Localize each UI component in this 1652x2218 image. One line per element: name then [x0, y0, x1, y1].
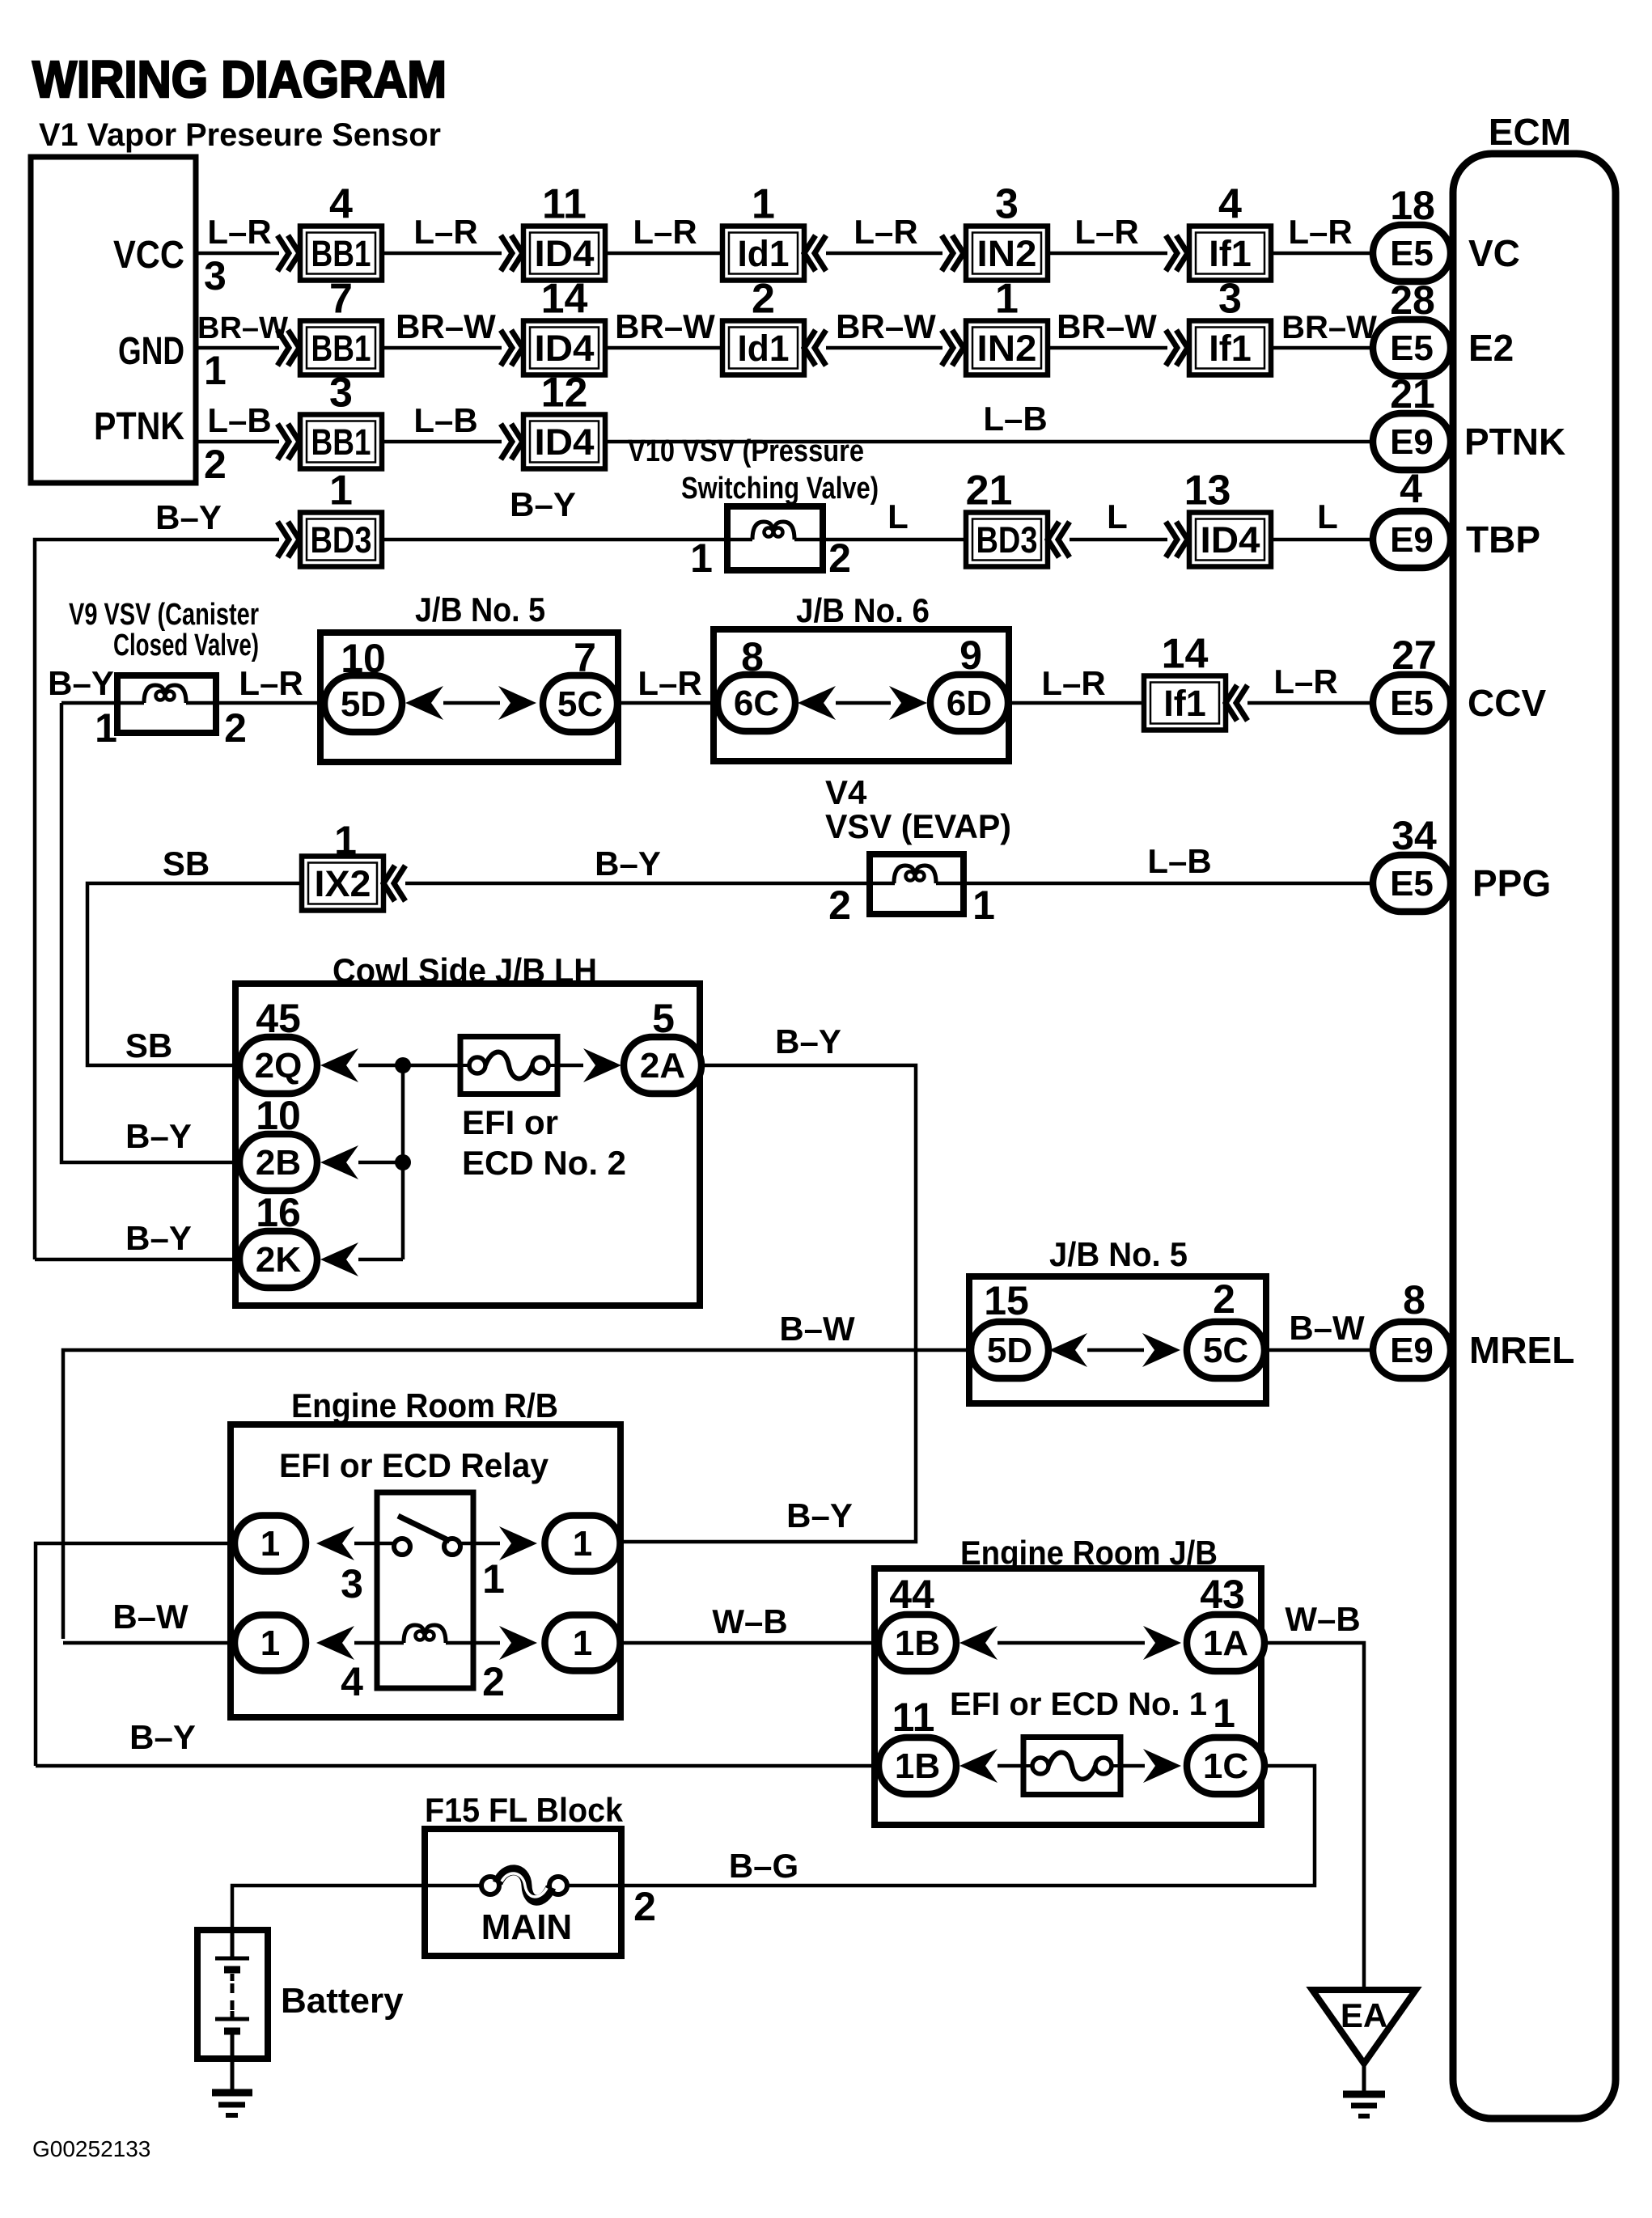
wire IX2 to VSV EVAP (B-Y)	[405, 882, 870, 886]
svg-text:L: L	[887, 497, 909, 535]
svg-text:W–B: W–B	[712, 1602, 787, 1640]
svg-text:1: 1	[329, 468, 353, 514]
svg-text:1A: 1A	[1203, 1623, 1248, 1663]
connector If1 pin 3	[1189, 276, 1271, 375]
wire 5D to 5C	[443, 701, 500, 705]
svg-text:5C: 5C	[1203, 1331, 1248, 1370]
svg-text:V9 VSV (Canister: V9 VSV (Canister	[69, 598, 259, 632]
svg-text:ID4: ID4	[535, 421, 595, 463]
svg-text:3: 3	[1218, 276, 1242, 323]
svg-text:1: 1	[95, 705, 117, 751]
component Cowl Side J/B LH box	[235, 984, 700, 1306]
wire 6C to 6D	[836, 701, 891, 705]
arrow right	[1142, 1333, 1180, 1367]
connector IN2 pin 1	[966, 276, 1048, 375]
svg-text:If1: If1	[1163, 683, 1206, 724]
svg-text:ID4: ID4	[535, 328, 595, 369]
connector E5 pin 34	[1373, 855, 1451, 912]
connector 2A pin 5	[624, 1037, 701, 1094]
svg-text:14: 14	[541, 276, 588, 323]
svg-text:11: 11	[542, 181, 587, 228]
connector 2Q pin 45	[239, 1037, 317, 1094]
svg-text:28: 28	[1390, 277, 1435, 323]
wire 1C to B-G corner	[621, 1766, 1315, 1886]
wire ID4 to Id1 (L-R)	[605, 252, 722, 256]
battery ground symbol	[231, 2059, 235, 2091]
component J/B No.5 second box	[969, 1276, 1266, 1403]
connector Id1 pin 1	[722, 181, 804, 281]
wire If1 to ECM E5 (L-R)	[1271, 252, 1412, 256]
svg-text:B–Y: B–Y	[155, 498, 222, 536]
arrow right	[498, 686, 536, 720]
svg-text:2A: 2A	[640, 1046, 685, 1086]
svg-text:2: 2	[828, 883, 851, 928]
svg-text:1: 1	[261, 1524, 280, 1564]
wire corner left B-Y	[35, 540, 279, 1259]
wire 2A B-Y to vertical	[621, 1065, 916, 1542]
chevron out of Id1	[804, 235, 826, 271]
connector ID4 pin 11	[523, 181, 605, 281]
svg-text:1C: 1C	[1203, 1746, 1248, 1786]
svg-text:Battery: Battery	[281, 1981, 404, 2021]
arrow left after 2K	[320, 1242, 358, 1276]
connector E5 pin 27	[1373, 675, 1451, 731]
svg-text:43: 43	[1200, 1572, 1245, 1617]
wire 2Q to fuse	[358, 1064, 460, 1068]
svg-text:4: 4	[329, 181, 353, 228]
svg-text:2: 2	[633, 1884, 656, 1929]
relay inner box	[377, 1492, 473, 1688]
wire Id1 to IN2 (L-R)	[826, 252, 942, 256]
wire 1B to fuse	[998, 1764, 1023, 1768]
svg-text:L–B: L–B	[1147, 842, 1211, 880]
svg-text:9: 9	[959, 633, 982, 678]
connector 1B pin 44	[879, 1615, 956, 1671]
wire BB1 to ID4 (L-R)	[382, 252, 502, 256]
svg-text:18: 18	[1390, 183, 1435, 228]
svg-text:E5: E5	[1390, 864, 1434, 904]
svg-text:B–Y: B–Y	[129, 1718, 196, 1756]
connector E9 pin 4	[1373, 511, 1451, 568]
svg-text:VSV (EVAP): VSV (EVAP)	[825, 807, 1011, 845]
svg-text:PTNK: PTNK	[94, 405, 184, 448]
svg-text:4: 4	[341, 1659, 363, 1704]
connector E5 pin 28	[1373, 320, 1451, 376]
arrow right	[499, 1526, 537, 1560]
svg-text:12: 12	[541, 370, 588, 417]
component V1 Vapor Pressure Sensor box	[31, 157, 196, 483]
connector 2K pin 16	[239, 1231, 317, 1288]
wire BD3 to ID4 (L)	[1070, 538, 1167, 542]
svg-text:8: 8	[1403, 1277, 1425, 1323]
svg-text:IN2: IN2	[977, 233, 1037, 274]
svg-text:L–R: L–R	[1273, 662, 1337, 701]
arrow left	[959, 1626, 998, 1660]
wire VCC to BB1 (L-R)	[196, 252, 279, 256]
svg-text:ID4: ID4	[535, 233, 595, 274]
svg-text:27: 27	[1391, 633, 1437, 678]
chevron into BB1	[277, 424, 299, 459]
svg-text:W–B: W–B	[1285, 1600, 1360, 1638]
svg-text:L: L	[1317, 497, 1338, 535]
relay contact oval 1 (pin1)	[545, 1516, 621, 1572]
svg-text:MAIN: MAIN	[481, 1907, 572, 1947]
svg-text:MREL: MREL	[1469, 1329, 1574, 1371]
svg-text:B–W: B–W	[1289, 1309, 1365, 1347]
chevron into If1	[1166, 330, 1188, 366]
svg-text:L–R: L–R	[638, 664, 701, 702]
connector E9 pin 21	[1373, 413, 1451, 470]
svg-text:E9: E9	[1390, 1331, 1434, 1370]
arrow right	[499, 1626, 537, 1660]
svg-text:BB1: BB1	[311, 421, 371, 463]
arrow right	[1143, 1626, 1181, 1660]
connector ID4 pin 13	[1184, 468, 1271, 567]
svg-text:1: 1	[752, 181, 775, 228]
wire 5C to 6C (L-R)	[618, 701, 717, 705]
relay coil oval 1 (pin2)	[545, 1615, 621, 1671]
component V10 VSV coil box	[727, 506, 823, 570]
svg-text:PPG: PPG	[1472, 862, 1551, 904]
connector Id1 pin 2	[722, 276, 804, 375]
wire relay pin2 to 1B (W-B)	[621, 1641, 879, 1645]
svg-text:1: 1	[482, 1556, 505, 1602]
connector BB1 pin 7	[300, 276, 382, 375]
svg-text:GND: GND	[118, 330, 184, 373]
connector 5D pin 10	[324, 675, 402, 732]
chevron into ID4	[501, 235, 523, 271]
svg-text:L–R: L–R	[633, 213, 697, 251]
svg-text:PTNK: PTNK	[1464, 421, 1565, 463]
svg-text:B–W: B–W	[779, 1310, 855, 1348]
svg-text:3: 3	[204, 253, 227, 298]
wire 1A to EA ground (W-B)	[1264, 1643, 1364, 1990]
svg-text:If1: If1	[1209, 233, 1252, 274]
ground EA triangle	[1312, 1990, 1416, 2064]
svg-text:L–R: L–R	[1041, 664, 1105, 702]
svg-text:2: 2	[828, 535, 851, 581]
chevron into ID4	[1166, 522, 1188, 557]
chevron into ID4	[501, 424, 523, 459]
svg-text:WIRING DIAGRAM: WIRING DIAGRAM	[32, 50, 447, 108]
connector BD3 pin 21	[966, 468, 1048, 567]
svg-text:Closed Valve): Closed Valve)	[113, 629, 259, 662]
relay coil oval 1 (pin4)	[235, 1615, 306, 1671]
svg-text:VC: VC	[1468, 232, 1520, 274]
svg-text:CCV: CCV	[1468, 682, 1546, 724]
svg-text:J/B No. 5: J/B No. 5	[1049, 1235, 1188, 1273]
connector BD3 pin 1	[300, 468, 382, 567]
arrow left	[959, 1749, 998, 1783]
svg-text:L–R: L–R	[207, 213, 271, 251]
svg-text:J/B No. 6: J/B No. 6	[796, 591, 930, 629]
arrow right	[889, 686, 927, 720]
svg-text:ECM: ECM	[1489, 111, 1571, 153]
connector 6D pin 9	[930, 675, 1008, 731]
component Engine Room R/B box	[231, 1424, 621, 1717]
wire IN2 to If1 (BR-W)	[1048, 346, 1167, 350]
svg-text:B–Y: B–Y	[775, 1022, 841, 1060]
relay contact oval 1 (pin3)	[235, 1516, 306, 1572]
svg-text:E5: E5	[1390, 234, 1434, 273]
svg-text:Id1: Id1	[738, 328, 790, 369]
wire ID4 to ECM E9 (L-B)	[605, 440, 1412, 444]
svg-text:B–Y: B–Y	[786, 1496, 853, 1534]
wire 2K to junction vertical	[358, 1258, 403, 1262]
component J/B No.5 box	[320, 633, 618, 762]
svg-text:BR–W: BR–W	[1057, 307, 1157, 345]
component battery	[197, 1930, 268, 2059]
svg-text:V1 Vapor Preseure Sensor: V1 Vapor Preseure Sensor	[39, 117, 441, 153]
wire 5C to ECM E9 (B-W)	[1264, 1348, 1412, 1352]
wire Id1 to IN2 (BR-W)	[826, 346, 942, 350]
wire V9 to J/B5 5D (L-R)	[216, 701, 324, 705]
arrow left	[316, 1626, 354, 1660]
svg-text:B–Y: B–Y	[125, 1117, 192, 1155]
svg-text:BR–W: BR–W	[396, 307, 496, 345]
svg-text:ECD No. 2: ECD No. 2	[462, 1144, 626, 1182]
wire BB1 to ID4 (BR-W)	[382, 346, 502, 350]
switch contact circles and blade	[377, 1542, 394, 1546]
svg-text:2: 2	[204, 442, 227, 487]
arrow left after 2Q	[320, 1048, 358, 1082]
svg-text:2: 2	[482, 1659, 505, 1704]
svg-text:15: 15	[984, 1278, 1029, 1323]
wire fuse to 1C	[1120, 1764, 1145, 1768]
wire ID4 to Id1 (BR-W)	[605, 346, 722, 350]
svg-text:E5: E5	[1390, 684, 1434, 723]
svg-text:B–Y: B–Y	[48, 664, 114, 702]
svg-text:E9: E9	[1390, 422, 1434, 462]
connector 5C pin 2	[1187, 1322, 1264, 1378]
svg-text:L–B: L–B	[983, 400, 1047, 438]
connector 2B pin 10	[239, 1134, 317, 1191]
svg-text:6D: 6D	[947, 684, 992, 723]
svg-text:BB1: BB1	[311, 233, 371, 274]
svg-text:B–Y: B–Y	[125, 1219, 192, 1257]
wire into relay pin3 from left vertical	[36, 1543, 235, 1766]
svg-text:14: 14	[1162, 631, 1209, 678]
wire BD3 to V10 VSV (B-Y)	[382, 538, 727, 542]
chevron into IN2	[942, 235, 964, 271]
svg-text:L–R: L–R	[413, 213, 477, 251]
chevron into BD3	[277, 522, 299, 557]
svg-text:4: 4	[1400, 466, 1422, 511]
connector BB1 pin 4	[300, 181, 382, 281]
svg-text:BD3: BD3	[311, 519, 372, 561]
wire B-Y bottom to 1B pin11	[36, 1764, 879, 1768]
svg-text:4: 4	[1218, 181, 1242, 228]
svg-text:2: 2	[752, 276, 775, 323]
svg-text:21: 21	[966, 468, 1013, 514]
svg-text:BR–W: BR–W	[197, 311, 288, 345]
svg-text:5D: 5D	[341, 684, 386, 724]
arrow right into 2A	[583, 1048, 621, 1082]
connector ID4 pin 12	[523, 370, 605, 469]
svg-text:BR–W: BR–W	[1281, 310, 1377, 345]
svg-text:IN2: IN2	[977, 328, 1037, 369]
svg-text:21: 21	[1390, 371, 1435, 417]
arrow left after 2B	[320, 1145, 358, 1179]
wire 6D to If1 (L-R)	[1009, 701, 1144, 705]
svg-text:EFI or: EFI or	[462, 1103, 558, 1141]
svg-text:EFI or ECD Relay: EFI or ECD Relay	[279, 1446, 549, 1484]
wire 2B to junction	[358, 1161, 403, 1165]
svg-text:BR–W: BR–W	[615, 307, 715, 345]
svg-text:2: 2	[224, 705, 247, 751]
chevron into IN2	[942, 330, 964, 366]
chevron into BB1	[277, 330, 299, 366]
connector IX2 pin 1	[302, 857, 383, 911]
svg-text:L–B: L–B	[413, 401, 477, 439]
svg-text:SB: SB	[125, 1026, 172, 1065]
svg-text:B–W: B–W	[112, 1598, 188, 1636]
wire If1 to ECM E5 (BR-W)	[1271, 346, 1412, 350]
component Engine Room J/B box	[875, 1568, 1261, 1825]
connector E9 pin 8	[1373, 1322, 1451, 1378]
connector IN2 pin 3	[966, 181, 1048, 281]
wire 1B to 1A	[998, 1641, 1145, 1645]
chevron out of Id1	[804, 330, 826, 366]
fuse EFI or ECD No.1	[1023, 1738, 1120, 1795]
svg-text:L–R: L–R	[1074, 213, 1138, 251]
svg-text:44: 44	[889, 1572, 934, 1617]
svg-text:5C: 5C	[557, 684, 603, 724]
svg-text:EFI or ECD No. 1: EFI or ECD No. 1	[950, 1687, 1207, 1722]
svg-text:IX2: IX2	[315, 863, 371, 904]
svg-text:B–Y: B–Y	[510, 485, 576, 523]
svg-text:1: 1	[1213, 1691, 1235, 1736]
component ECM box	[1453, 154, 1616, 2119]
wire switch to right oval	[473, 1542, 500, 1546]
svg-text:1: 1	[261, 1623, 280, 1663]
connector 1C pin 1	[1187, 1738, 1264, 1794]
connector BB1 pin 3	[300, 370, 382, 469]
svg-text:1: 1	[573, 1623, 592, 1663]
wire ID4 to ECM E9 (L)	[1271, 538, 1412, 542]
svg-text:L–B: L–B	[207, 401, 271, 439]
chevron out of IX2	[383, 866, 405, 901]
relay coil symbol	[404, 1625, 446, 1643]
svg-text:1: 1	[995, 276, 1019, 323]
svg-text:1: 1	[573, 1524, 592, 1564]
svg-text:B–G: B–G	[729, 1847, 798, 1885]
svg-text:2: 2	[1213, 1276, 1235, 1322]
svg-text:13: 13	[1184, 468, 1231, 514]
chevron into If1	[1166, 235, 1188, 271]
component V4 VSV EVAP coil box	[870, 854, 964, 914]
svg-text:L: L	[1107, 497, 1128, 535]
svg-text:J/B No. 5: J/B No. 5	[415, 590, 545, 629]
arrow left	[798, 686, 836, 720]
chevron into BB1	[277, 235, 299, 271]
wire If1 to ECM E5 (L-R)	[1247, 701, 1412, 705]
connector E5 pin 18	[1373, 225, 1451, 281]
svg-text:ID4: ID4	[1201, 519, 1260, 561]
chevron out of If1	[1226, 685, 1247, 721]
svg-text:2B: 2B	[256, 1143, 301, 1183]
connector 1B pin 11	[879, 1738, 956, 1794]
arrow left	[316, 1526, 354, 1560]
wire V9 pin1 to vertical	[61, 701, 117, 705]
fusible link MAIN	[425, 1884, 481, 1888]
wire into relay coil pin4	[63, 1641, 235, 1645]
junction dot	[395, 1154, 411, 1170]
svg-text:L–R: L–R	[854, 213, 917, 251]
chevron out of BD3	[1048, 522, 1070, 557]
svg-text:6C: 6C	[734, 684, 779, 723]
wire fuse to 2A	[557, 1064, 583, 1068]
junction dot	[395, 1057, 411, 1073]
svg-text:2K: 2K	[256, 1240, 301, 1280]
svg-text:VCC: VCC	[113, 234, 184, 277]
connector 1A pin 43	[1187, 1615, 1264, 1671]
svg-text:E9: E9	[1390, 520, 1434, 560]
svg-text:TBP: TBP	[1466, 519, 1540, 561]
svg-text:If1: If1	[1209, 328, 1252, 369]
svg-text:BB1: BB1	[311, 328, 371, 369]
svg-text:Switching Valve): Switching Valve)	[681, 472, 879, 506]
svg-text:3: 3	[995, 181, 1019, 228]
wire V10 to BD3 (L)	[823, 538, 966, 542]
svg-text:Id1: Id1	[738, 233, 790, 274]
svg-text:SB: SB	[163, 844, 210, 883]
svg-text:2Q: 2Q	[255, 1046, 303, 1086]
svg-text:E2: E2	[1468, 327, 1514, 369]
svg-text:1: 1	[204, 348, 227, 393]
connector If1 pin 14	[1144, 631, 1226, 730]
svg-text:1: 1	[690, 535, 713, 581]
svg-text:BR–W: BR–W	[836, 307, 936, 345]
svg-text:B–Y: B–Y	[595, 844, 661, 883]
fuse EFI or ECD No.2	[460, 1037, 557, 1094]
wire VSV EVAP to ECM E5 (L-B)	[964, 882, 1412, 886]
connector 5D pin 15	[971, 1322, 1048, 1378]
wire PTNK to BB1 (L-B)	[196, 440, 279, 444]
wire to switch	[354, 1542, 396, 1546]
svg-text:3: 3	[329, 370, 353, 417]
svg-text:1: 1	[972, 883, 995, 928]
wire junction vertical	[401, 1065, 405, 1259]
svg-text:3: 3	[341, 1561, 363, 1606]
svg-text:1B: 1B	[895, 1623, 940, 1663]
connector 5C pin 7	[543, 675, 617, 732]
svg-text:V4: V4	[825, 773, 867, 811]
component J/B No.6 box	[714, 629, 1009, 761]
component F15 FL Block box	[425, 1829, 621, 1956]
wire 5D to 5C	[1087, 1348, 1144, 1352]
connector ID4 pin 14	[523, 276, 605, 375]
arrow left	[405, 686, 443, 720]
svg-text:F15 FL Block: F15 FL Block	[425, 1791, 624, 1829]
wire IN2 to If1 (L-R)	[1048, 252, 1167, 256]
svg-text:BD3: BD3	[976, 519, 1038, 561]
wire 2K from left vertical	[35, 1258, 239, 1262]
wire BB1 to ID4 (L-B)	[382, 440, 502, 444]
connector 6C pin 8	[718, 675, 795, 731]
wire GND to BB1 (BR-W)	[196, 346, 279, 350]
svg-text:V10 VSV (Pressure: V10 VSV (Pressure	[628, 434, 864, 468]
svg-text:L–R: L–R	[1288, 213, 1352, 251]
connector If1 pin 4	[1189, 181, 1271, 281]
svg-text:Engine Room R/B: Engine Room R/B	[291, 1386, 558, 1424]
svg-text:11: 11	[892, 1695, 935, 1740]
wire B-W corner to J/B5 5D	[63, 1350, 972, 1639]
arrow left	[1049, 1333, 1087, 1367]
wire corner SB from IX2 down	[87, 883, 302, 1065]
wire B-Y from V9 down to 2B	[61, 703, 239, 1162]
svg-text:G00252133: G00252133	[32, 2136, 150, 2161]
